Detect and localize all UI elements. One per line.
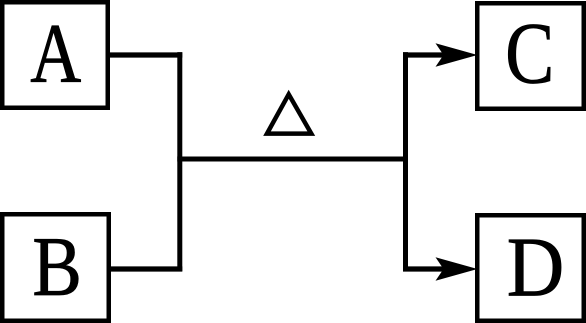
wire B to left bus xyxy=(109,266,182,271)
wire to C xyxy=(403,52,444,57)
delta triangle xyxy=(267,94,311,133)
box A xyxy=(2,2,108,108)
arrowhead to C xyxy=(436,43,478,66)
box C xyxy=(477,3,584,109)
svg-text:B: B xyxy=(32,220,82,314)
svg-text:A: A xyxy=(30,7,81,101)
wire right bus vertical xyxy=(403,52,408,271)
arrowhead to D xyxy=(436,257,478,280)
box D xyxy=(477,215,584,321)
box B xyxy=(2,214,109,321)
wire to D xyxy=(403,266,444,271)
wire main horizontal xyxy=(177,157,408,162)
wire left bus vertical xyxy=(177,52,182,271)
wire A to left bus xyxy=(108,52,182,57)
svg-text:D: D xyxy=(507,220,565,314)
svg-text:C: C xyxy=(505,6,554,103)
